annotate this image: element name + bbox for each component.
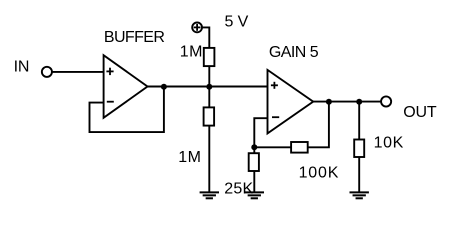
power supply 5V source symbol (192, 23, 202, 33)
op-amp U2 gain triangle (268, 70, 314, 133)
op-amp U2 minus pin symbol (272, 116, 279, 118)
wire node C to R3 (254, 146, 291, 148)
svg-text:IN: IN (14, 58, 30, 75)
wire R5 to ground (358, 157, 360, 192)
wire supply to R1 (202, 27, 209, 48)
resistor R4 25K body (249, 153, 259, 171)
ground under R5 (350, 192, 369, 198)
wire gain - input stub to node C (254, 118, 268, 147)
wire R1 to node B (208, 66, 210, 86)
wire node E to R5 (358, 102, 360, 140)
resistor R3 100K body (291, 142, 308, 153)
op-amp U1 minus pin symbol (107, 101, 114, 103)
resistor R1 1M body (204, 48, 215, 66)
terminal IN (42, 67, 52, 77)
op-amp U1 plus pin symbol (106, 68, 113, 75)
wire buffer output to gain + input (147, 86, 269, 88)
ground under R4 (245, 192, 264, 198)
svg-text:BUFFER: BUFFER (104, 29, 164, 46)
svg-text:10K: 10K (374, 134, 404, 151)
wire IN to buffer + input (52, 71, 104, 73)
svg-text:1M: 1M (180, 43, 203, 60)
wire gain output to OUT (312, 101, 381, 103)
svg-text:OUT: OUT (403, 104, 437, 121)
wire R2 to ground (208, 126, 210, 193)
wire buffer feedback loop (90, 87, 164, 133)
node A junction dot at buffer output (161, 84, 167, 90)
wire node C to R4 (253, 147, 255, 153)
ground under R2 (200, 192, 219, 198)
wire R4 to ground (253, 171, 255, 192)
resistor R2 1M body (204, 107, 215, 125)
op-amp U1 buffer triangle (104, 55, 148, 118)
node C junction dot (251, 144, 257, 150)
wire node B to R2 (208, 87, 210, 108)
svg-text:100K: 100K (299, 164, 340, 181)
terminal OUT (381, 96, 391, 106)
svg-text:GAIN 5: GAIN 5 (269, 44, 319, 61)
svg-text:1M: 1M (178, 149, 201, 166)
node D junction dot (326, 99, 332, 105)
node B junction dot (206, 84, 212, 90)
node E junction dot (356, 99, 362, 105)
svg-text:5 V: 5 V (225, 13, 249, 30)
resistor R5 10K body (354, 140, 364, 158)
op-amp U2 plus pin symbol (271, 82, 278, 89)
wire R3 to node D (308, 102, 329, 148)
